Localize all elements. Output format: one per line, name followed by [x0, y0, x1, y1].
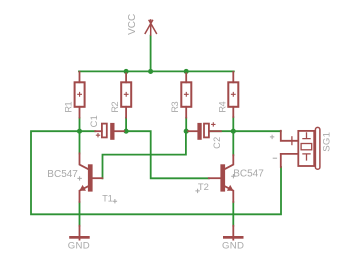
svg-text:R2: R2 — [110, 101, 120, 112]
svg-text:BC547: BC547 — [47, 169, 78, 180]
svg-text:R1: R1 — [64, 101, 74, 112]
svg-text:GND: GND — [68, 240, 90, 251]
svg-text:GND: GND — [222, 240, 244, 251]
svg-text:VCC: VCC — [127, 14, 138, 35]
svg-text:R3: R3 — [170, 101, 180, 112]
svg-text:SG1: SG1 — [321, 132, 332, 152]
svg-text:R4: R4 — [217, 101, 227, 112]
svg-text:T2: T2 — [198, 181, 209, 192]
svg-text:C1: C1 — [89, 115, 99, 128]
svg-text:T1: T1 — [102, 193, 113, 203]
svg-text:C2: C2 — [212, 136, 222, 149]
svg-text:BC547: BC547 — [233, 168, 264, 179]
